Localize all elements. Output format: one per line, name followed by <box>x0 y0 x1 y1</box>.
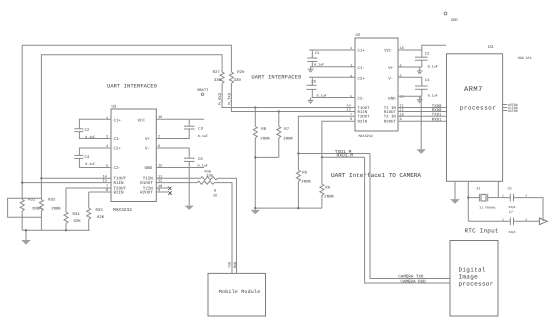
capacitor C4 (U2) <box>398 77 422 86</box>
svg-text:M_TXD: M_TXD <box>227 92 232 105</box>
wire ARM7 RTC right leg <box>497 181 499 197</box>
svg-text:0.1uF: 0.1uF <box>198 164 208 169</box>
svg-text:1: 1 <box>502 218 504 221</box>
svg-text:C8: C8 <box>508 187 512 192</box>
wire U3 R2IN <box>89 191 111 193</box>
svg-text:R2OUT: R2OUT <box>384 120 397 125</box>
svg-text:2: 2 <box>400 64 402 69</box>
svg-text:8: 8 <box>106 188 108 193</box>
ground under C1 <box>308 68 314 70</box>
svg-text:T2 IN: T2 IN <box>384 115 397 120</box>
svg-text:V+: V+ <box>145 137 151 142</box>
power VDD <box>444 12 447 15</box>
svg-text:Mobile Module: Mobile Module <box>219 289 261 295</box>
svg-text:C2-: C2- <box>358 97 365 102</box>
svg-text:2: 2 <box>525 195 527 198</box>
wire U2 T2OUT to TXD1_M <box>298 116 355 153</box>
svg-text:4: 4 <box>350 74 352 79</box>
svg-text:V+: V+ <box>388 66 393 71</box>
svg-text:53pF: 53pF <box>509 231 516 234</box>
svg-text:5: 5 <box>350 94 352 99</box>
wire U2 GND <box>398 95 422 97</box>
svg-text:VDD: VDD <box>451 18 459 23</box>
svg-text:C1-: C1- <box>114 137 122 142</box>
svg-text:62K: 62K <box>97 215 105 220</box>
ground under C2 <box>417 70 423 72</box>
wire CAMERA TXD <box>370 154 450 279</box>
svg-text:53pF: 53pF <box>509 206 516 209</box>
svg-text:TXD1: TXD1 <box>432 113 442 118</box>
svg-text:M_RXD: M_RXD <box>218 92 223 105</box>
svg-text:CAMERA TXD: CAMERA TXD <box>398 275 424 280</box>
svg-text:U1: U1 <box>488 45 494 50</box>
capacitor C2 <box>79 119 111 129</box>
resistor R9 pulldown on TXD1_M <box>297 154 299 171</box>
svg-text:R29: R29 <box>237 70 245 75</box>
svg-text:0.1uF: 0.1uF <box>317 94 327 99</box>
svg-text:13: 13 <box>103 179 107 184</box>
svg-text:200K: 200K <box>283 136 293 141</box>
op-amp U2 MAX3232 box <box>355 38 398 131</box>
ground U2 right <box>417 149 426 154</box>
svg-text:200K: 200K <box>324 195 334 200</box>
wire RXD0 U2 R1OUT to ARM7 <box>398 111 447 113</box>
svg-text:C2+: C2+ <box>358 76 366 81</box>
wire ARM7 RTC left leg <box>467 181 469 221</box>
svg-text:0.1uF: 0.1uF <box>428 64 438 69</box>
wire U3 ground drop <box>188 161 190 205</box>
svg-text:R1IN: R1IN <box>358 110 368 115</box>
wire U3 T2OUT <box>66 187 111 189</box>
svg-text:330: 330 <box>234 78 242 83</box>
wire RXD1 U2 R2OUT to ARM7 <box>398 120 447 122</box>
wire U3 R1IN to outer loop <box>22 182 111 184</box>
svg-text:15: 15 <box>400 94 404 99</box>
svg-text:200K: 200K <box>260 136 270 141</box>
wire RXD1_M <box>322 156 365 158</box>
resistor R7 pulldown on M_TXD wire <box>278 110 280 112</box>
wire U2 R2IN to RXD1_M <box>322 121 355 157</box>
svg-text:330: 330 <box>206 174 212 179</box>
svg-text:C4: C4 <box>425 78 430 83</box>
svg-text:T1IN: T1IN <box>143 177 154 182</box>
svg-text:0: 0 <box>214 189 216 194</box>
resistor R6 pulldown on RXD1_M <box>321 157 323 184</box>
wire U2 GND drop to ground <box>420 96 422 149</box>
pin labels U2 left <box>347 46 353 122</box>
crystal X1 <box>468 197 479 199</box>
resistor R8 pulldown on M_RXD wire <box>254 106 256 108</box>
svg-text:C6: C6 <box>198 157 203 162</box>
processor U1 ARM7 box <box>447 54 503 182</box>
svg-text:GND: GND <box>144 166 152 171</box>
wire ground rail middle <box>255 207 322 209</box>
ground U3 right <box>185 206 194 210</box>
svg-text:C2: C2 <box>425 51 430 56</box>
svg-text:330: 330 <box>214 78 222 83</box>
svg-text:U3: U3 <box>112 105 117 110</box>
wire U3 R2OUT stub no-connect <box>156 191 168 193</box>
wire U3 VCC <box>156 118 204 120</box>
svg-text:MAX3232: MAX3232 <box>359 134 373 139</box>
svg-text:GND: GND <box>388 97 396 102</box>
wire U3 R1OUT row <box>156 182 197 184</box>
capacitor C8 <box>498 197 510 199</box>
resistor R29 <box>229 72 233 84</box>
svg-text:5: 5 <box>106 164 108 169</box>
svg-text:0.1uF: 0.1uF <box>85 162 95 167</box>
capacitor C7 <box>468 220 510 222</box>
svg-text:14: 14 <box>103 174 107 179</box>
svg-text:C2-: C2- <box>114 166 122 171</box>
svg-text:4: 4 <box>106 144 108 149</box>
svg-text:VCC: VCC <box>137 118 145 123</box>
wire left bracket <box>8 198 42 217</box>
svg-text:RXD0: RXD0 <box>432 108 442 113</box>
ground under C5 <box>308 99 314 101</box>
svg-text:VDD CP1: VDD CP1 <box>518 56 532 61</box>
ground ARM7 bottom <box>454 181 456 199</box>
wire U2 V+ <box>398 66 422 68</box>
wire R8 R7 bottom rail <box>255 156 278 158</box>
svg-text:C1: C1 <box>315 51 320 56</box>
pin labels U3 left <box>103 116 109 193</box>
resistor R34 <box>65 188 67 212</box>
svg-text:C1+: C1+ <box>114 118 122 123</box>
svg-text:C3: C3 <box>198 127 203 132</box>
svg-text:R27: R27 <box>213 70 221 75</box>
svg-text:R9: R9 <box>302 171 307 176</box>
wire U2 VCC to VDD <box>398 45 446 50</box>
svg-text:TXD: TXD <box>228 262 233 268</box>
svg-text:13: 13 <box>347 108 351 113</box>
pin names U2 inside <box>358 48 397 124</box>
svg-text:R1OUT: R1OUT <box>140 181 153 186</box>
wire TXD1_M <box>298 153 370 155</box>
svg-text:UART INTERFACE0: UART INTERFACE0 <box>107 84 157 90</box>
svg-text:U2: U2 <box>356 33 361 38</box>
resistor R33 <box>88 192 90 208</box>
resistor R31 <box>20 200 24 212</box>
wire M_TXD outer loop top-left <box>22 45 231 199</box>
svg-text:C5: C5 <box>312 80 317 85</box>
wire ground rail bottom-left <box>22 229 90 231</box>
svg-text:ARM7: ARM7 <box>464 86 483 94</box>
svg-text:Digital: Digital <box>459 267 486 274</box>
capacitor C2 (U2) <box>421 50 423 57</box>
svg-text:processor: processor <box>460 105 496 112</box>
pin labels U2 right <box>400 46 404 122</box>
node RTC off-page arrow <box>539 218 547 225</box>
svg-text:C1-: C1- <box>358 66 365 71</box>
wire CAMERA RXD <box>365 157 450 283</box>
wire R32 bottom <box>40 211 42 230</box>
svg-text:processor: processor <box>459 281 494 288</box>
svg-text:0.1uF: 0.1uF <box>198 134 208 139</box>
pin labels U3 right <box>158 115 162 193</box>
processor Digital Image box <box>450 241 498 317</box>
svg-text:T1OUT: T1OUT <box>114 177 127 182</box>
resistor R27 <box>220 72 224 84</box>
wire ARM7 xDTR0 <box>503 110 507 112</box>
svg-text:RXD: RXD <box>233 262 238 268</box>
capacitor C3 <box>188 119 190 126</box>
capacitor C6 <box>188 148 190 158</box>
svg-text:200K: 200K <box>301 180 311 185</box>
wire to mobile riser 2 <box>214 183 232 274</box>
svg-text:62K: 62K <box>74 219 82 224</box>
svg-text:0.1uF: 0.1uF <box>314 63 324 68</box>
svg-text:2: 2 <box>525 218 527 221</box>
svg-text:MAX3232: MAX3232 <box>113 207 132 213</box>
svg-text:R1IN: R1IN <box>114 181 125 186</box>
wire M_RXD riser to U2 T1OUT <box>222 84 355 108</box>
pin names U3 inside <box>114 118 154 195</box>
resistor R30 <box>198 181 215 184</box>
svg-text:C1+: C1+ <box>358 48 366 53</box>
svg-text:R32: R32 <box>48 198 56 203</box>
svg-text:1: 1 <box>502 195 504 198</box>
svg-text:R2IN: R2IN <box>114 190 125 195</box>
svg-text:200K: 200K <box>51 206 61 211</box>
svg-text:R7: R7 <box>284 127 289 132</box>
wire TXD1 U2 T2IN to ARM7 <box>398 115 447 117</box>
wire ARM7 xCTS0 <box>503 107 507 109</box>
wire to mobile riser 1 <box>218 178 237 273</box>
svg-text:V-: V- <box>388 76 393 81</box>
wire U3 GND <box>156 167 204 169</box>
module Mobile Module box <box>208 273 266 316</box>
svg-text:R2OUT: R2OUT <box>140 190 153 195</box>
wire U3 T2IN stub no-connect <box>156 187 168 189</box>
svg-text:CAMERA RXD: CAMERA RXD <box>401 279 427 284</box>
svg-text:UART Interface1 TO CAMERA: UART Interface1 TO CAMERA <box>331 172 421 179</box>
svg-text:0.1uF: 0.1uF <box>428 93 438 98</box>
capacitor C4 <box>79 148 111 155</box>
svg-text:3: 3 <box>350 64 352 69</box>
resistor R36 <box>201 177 218 180</box>
wire TXD0 U2 T1IN to ARM7 <box>398 107 447 109</box>
svg-text:R33: R33 <box>96 208 104 213</box>
svg-text:RXD1_M: RXD1_M <box>337 153 354 159</box>
wire M_RXD inner loop top-left <box>41 55 222 200</box>
wire U3 T1OUT to inner loop <box>41 177 111 179</box>
svg-text:C2: C2 <box>85 128 90 133</box>
svg-text:RXD1: RXD1 <box>432 118 442 123</box>
svg-text:RTC Input: RTC Input <box>465 228 499 235</box>
wire ARM7 xRTS0 <box>503 104 507 106</box>
svg-text:V-: V- <box>145 146 150 151</box>
svg-text:C4: C4 <box>85 155 90 160</box>
svg-text:VBATT: VBATT <box>197 88 209 93</box>
svg-text:R2IN: R2IN <box>358 120 368 125</box>
svg-text:UART INTERFACE0: UART INTERFACE0 <box>251 75 301 81</box>
svg-text:R1OUT: R1OUT <box>384 110 397 115</box>
svg-text:32.768KHz: 32.768KHz <box>479 207 495 210</box>
wire R31 bottom <box>21 211 23 230</box>
ground bottom-left <box>25 230 27 240</box>
svg-text:T2OUT: T2OUT <box>358 115 371 120</box>
svg-text:xDTR0: xDTR0 <box>508 109 518 114</box>
node junction dots left rail <box>25 229 27 231</box>
svg-text:R8: R8 <box>261 127 266 132</box>
svg-text:X1: X1 <box>477 187 481 192</box>
svg-text:R34: R34 <box>73 212 81 217</box>
svg-text:C2+: C2+ <box>114 146 122 151</box>
svg-text:3: 3 <box>106 135 108 140</box>
ground under C4 <box>417 99 423 101</box>
svg-text:Image: Image <box>459 274 479 281</box>
capacitor C5 <box>309 76 355 78</box>
svg-text:0.1uF: 0.1uF <box>85 135 95 140</box>
svg-text:C7: C7 <box>509 210 513 215</box>
svg-text:1: 1 <box>106 116 108 121</box>
svg-text:R6: R6 <box>325 186 330 191</box>
svg-text:200K: 200K <box>32 206 42 211</box>
ground middle <box>251 210 260 214</box>
svg-text:VCC: VCC <box>384 48 392 53</box>
resistor R32 <box>39 200 43 212</box>
op-amp U3 MAX3232 box <box>111 109 156 202</box>
wire U3 T1IN row <box>156 177 201 179</box>
capacitor C1 <box>309 49 355 51</box>
wire M_TXD riser to U2 R1IN <box>231 84 355 112</box>
svg-text:6: 6 <box>400 74 402 79</box>
wire U3 V- <box>156 147 189 149</box>
